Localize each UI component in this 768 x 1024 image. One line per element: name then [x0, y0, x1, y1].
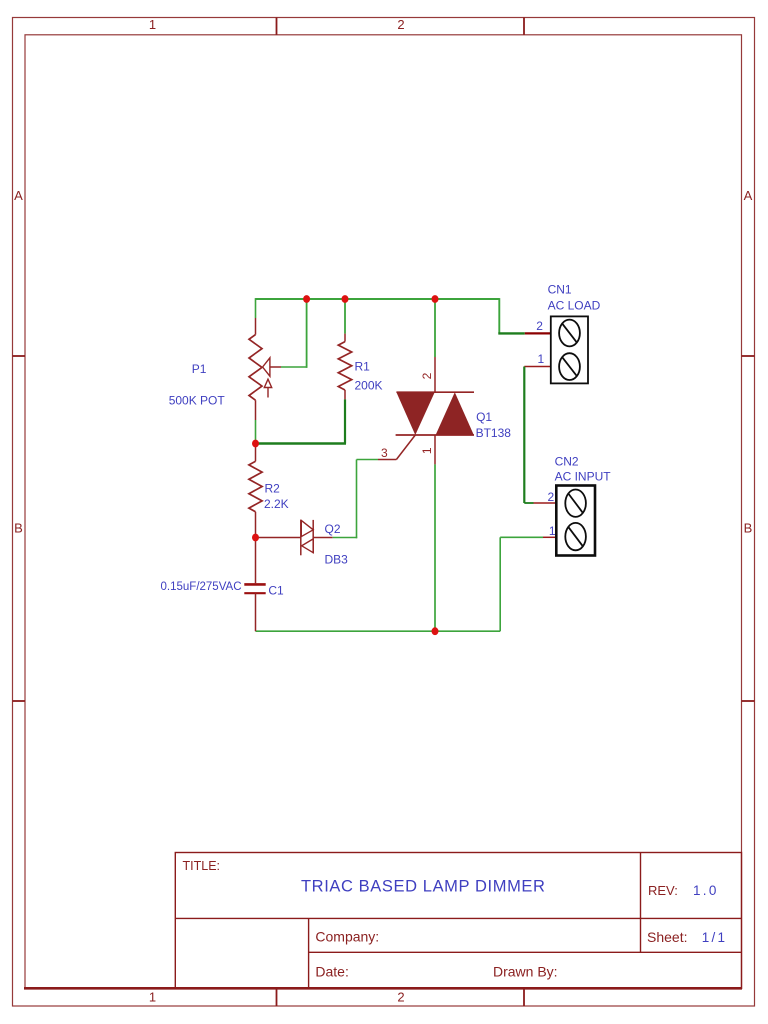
svg-text:TITLE:: TITLE:: [183, 859, 221, 873]
svg-text:Date:: Date:: [315, 964, 348, 980]
svg-text:DB3: DB3: [325, 553, 349, 567]
company label: [315, 929, 379, 945]
rev value: [693, 883, 719, 898]
svg-text:0.15uF/275VAC: 0.15uF/275VAC: [161, 581, 242, 593]
wire R2 top lead red: [255, 444, 257, 462]
label DB3: [325, 553, 349, 567]
junction dot triac top: [432, 295, 439, 303]
frame tick top 1: [276, 18, 278, 35]
wire CN2 pin2 green: [524, 502, 533, 504]
frame tick bottom 2: [523, 988, 525, 1006]
svg-text:TRIAC BASED LAMP DIMMER: TRIAC BASED LAMP DIMMER: [301, 878, 546, 896]
label R1: [355, 360, 371, 374]
wire R1 bottom lead red: [344, 390, 346, 399]
junction dot bottom wire: [432, 627, 439, 635]
resistor R2 body: [249, 461, 262, 512]
wire P1 bottom lead green: [255, 420, 257, 444]
resistor R1 body: [338, 342, 351, 390]
title block: [175, 853, 741, 989]
svg-text:1: 1: [149, 17, 156, 32]
wire R2 to diac red: [256, 537, 301, 539]
svg-text:2: 2: [420, 372, 434, 379]
zone label 2 bottom: [397, 990, 404, 1005]
frame tick right 1: [742, 355, 755, 357]
wire CN1 pin2 red lead: [525, 332, 551, 334]
label Q2: [325, 522, 341, 536]
svg-text:Company:: Company:: [315, 929, 379, 945]
frame tick right 2: [742, 700, 755, 702]
wire R1 top lead green: [344, 299, 346, 334]
frame tick left 1: [13, 355, 26, 357]
wire CN1 pin1 red lead: [524, 366, 551, 368]
frame tick left 2: [13, 700, 26, 702]
svg-text:Q1: Q1: [476, 410, 492, 424]
svg-text:CN1: CN1: [548, 283, 572, 297]
junction dot wiper: [303, 295, 310, 303]
wire P1 wiper green horizontal: [281, 366, 307, 368]
label P1: [192, 362, 207, 376]
svg-text:1: 1: [420, 447, 434, 454]
wire diac to gate green horizontal: [333, 537, 358, 539]
svg-text:2: 2: [536, 319, 543, 333]
svg-text:CN2: CN2: [555, 455, 579, 469]
potentiometer P1 body: [249, 335, 262, 401]
label 2.2K: [264, 497, 289, 511]
title label: [183, 859, 221, 873]
svg-text:Drawn By:: Drawn By:: [493, 964, 558, 980]
label CN2 pin 1: [549, 524, 556, 538]
wire CN1 pin2 thick green: [498, 332, 525, 334]
label C1 value: [161, 581, 242, 593]
label R2: [265, 482, 281, 496]
svg-text:1: 1: [538, 352, 545, 366]
label C1: [268, 584, 284, 598]
wire P1 top lead red: [255, 318, 257, 335]
label pin 1 triac: [420, 447, 434, 454]
label CN1 pin 2: [536, 319, 543, 333]
svg-text:AC LOAD: AC LOAD: [548, 299, 601, 313]
svg-text:REV:: REV:: [648, 883, 678, 898]
frame tick top 2: [523, 18, 525, 35]
wire P1 top lead green: [255, 298, 257, 318]
svg-text:2.2K: 2.2K: [264, 497, 289, 511]
label CN1 pin 1: [538, 352, 545, 366]
wire triac T1 lead red: [434, 435, 436, 464]
frame tick bottom 1: [276, 988, 278, 1006]
label CN2: [555, 455, 579, 469]
svg-text:B: B: [14, 521, 23, 536]
svg-text:R2: R2: [265, 482, 281, 496]
label pin 3: [381, 446, 388, 460]
junction dot P1 bottom: [252, 440, 259, 448]
svg-text:A: A: [744, 188, 753, 203]
zone label A right: [744, 188, 753, 203]
rev label: [648, 883, 678, 898]
drawn by label: [493, 964, 558, 980]
connector CN1: [551, 316, 588, 383]
svg-text:Q2: Q2: [325, 522, 341, 536]
svg-text:Sheet:: Sheet:: [647, 929, 687, 945]
junction dot R1 top: [342, 295, 349, 303]
svg-text:A: A: [14, 188, 23, 203]
label pin 2 triac: [420, 372, 434, 379]
wire CN2 pin2 red lead: [534, 502, 557, 504]
capacitor C1: [244, 584, 265, 593]
sheet label: [647, 929, 687, 945]
wire C1 top lead red: [255, 538, 257, 584]
svg-text:2: 2: [397, 990, 404, 1005]
wire CN2 pin1 green: [500, 536, 543, 538]
wire gate lead red: [378, 459, 396, 461]
wire bottom horizontal: [256, 630, 501, 632]
svg-text:2: 2: [397, 17, 404, 32]
wire CN2 pin1 red lead: [543, 536, 556, 538]
wire triac T1 green: [434, 464, 436, 631]
zone label B right: [744, 521, 753, 536]
wire top horizontal: [256, 298, 500, 300]
label CN1: [548, 283, 572, 297]
wire R1 bottom vertical green: [344, 399, 346, 443]
wire gate vertical green: [356, 460, 358, 539]
junction dot R2 bottom: [252, 534, 259, 542]
label Q1: [476, 410, 492, 424]
label 500K POT: [169, 394, 226, 408]
title text: [301, 878, 546, 896]
label CN2 pin 2: [548, 490, 555, 504]
wire triac T2 green: [434, 299, 436, 357]
wire CN1 to CN2 vertical: [523, 367, 525, 504]
label AC LOAD: [548, 299, 601, 313]
wire R2 bottom lead red: [255, 512, 257, 538]
svg-text:R1: R1: [355, 360, 371, 374]
zone label 1 bottom: [149, 990, 156, 1005]
wire C1 bottom lead red: [255, 593, 257, 631]
date label: [315, 964, 348, 980]
zone label A left: [14, 188, 23, 203]
sheet value: [702, 930, 728, 945]
svg-text:BT138: BT138: [476, 426, 512, 440]
zone label 2 top: [397, 17, 404, 32]
svg-text:3: 3: [381, 446, 388, 460]
svg-text:AC INPUT: AC INPUT: [555, 470, 612, 484]
diac Q2: [301, 520, 313, 555]
label 200K: [355, 379, 383, 393]
svg-text:2: 2: [548, 490, 555, 504]
triac Q1: [396, 392, 474, 459]
wire top right vertical: [498, 298, 500, 333]
label BT138: [476, 426, 512, 440]
wire P1 bottom lead red: [255, 400, 257, 420]
svg-text:1: 1: [549, 524, 556, 538]
wire R1 top lead red: [344, 334, 346, 342]
svg-text:1.0: 1.0: [693, 883, 719, 898]
wire diac right red: [313, 537, 333, 539]
wire CN2 pin1 down vertical: [499, 537, 501, 631]
svg-text:200K: 200K: [355, 379, 383, 393]
svg-text:C1: C1: [268, 584, 284, 598]
wire gate horizontal green: [357, 459, 379, 461]
svg-text:P1: P1: [192, 362, 207, 376]
svg-text:500K POT: 500K POT: [169, 394, 226, 408]
potentiometer P1 wiper arrow: [263, 358, 281, 398]
zone label 1 top: [149, 17, 156, 32]
svg-text:B: B: [744, 521, 753, 536]
wire triac T2 lead red: [434, 357, 436, 392]
svg-text:1/1: 1/1: [702, 930, 728, 945]
label AC INPUT: [555, 470, 612, 484]
connector CN2: [556, 486, 595, 556]
zone label B left: [14, 521, 23, 536]
wire P1 wiper vertical: [306, 299, 308, 368]
wire thick horizontal P1-R1 bottom: [255, 442, 347, 445]
svg-text:1: 1: [149, 990, 156, 1005]
